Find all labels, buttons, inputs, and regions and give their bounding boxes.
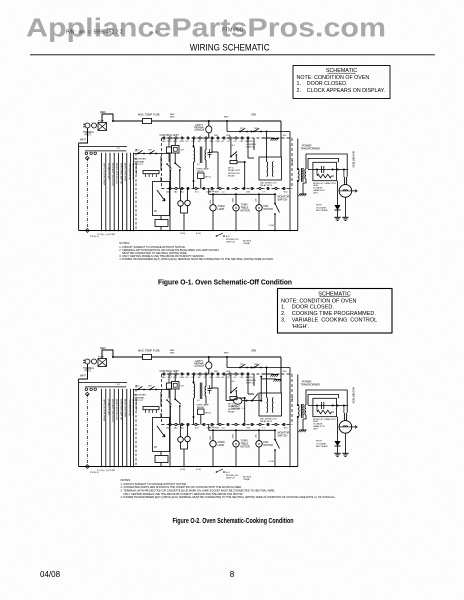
svg-text:M: M	[258, 442, 260, 446]
magnetron filament chokes	[343, 413, 346, 421]
fan thermal cutout switches	[133, 153, 170, 155]
wire bundle to control unit	[100, 389, 102, 467]
svg-text:B1: B1	[228, 141, 230, 143]
svg-text:BLU/BLK: BLU/BLK	[243, 477, 252, 479]
door sensing switch	[230, 139, 232, 156]
chassis boundary dashed	[135, 385, 137, 467]
svg-text:RED/1.25 FM-PWR: RED/1.25 FM-PWR	[124, 163, 126, 181]
svg-text:OHM: OHM	[214, 428, 219, 430]
svg-text:A.C.: A.C.	[226, 235, 231, 238]
svg-text:UNIT: UNIT	[313, 428, 318, 430]
svg-text:YLW: YLW	[209, 200, 211, 204]
svg-text:PPL/CAVITY DN CTOUT: PPL/CAVITY DN CTOUT	[111, 399, 114, 422]
svg-text:ROOM FAN: ROOM FAN	[134, 394, 146, 397]
rectifier ground	[334, 216, 340, 218]
wire top bus right drop	[280, 121, 282, 157]
magnetron	[339, 185, 352, 198]
svg-text:2ND.: 2ND.	[254, 128, 259, 130]
control unit bottom pins	[169, 187, 171, 189]
monitor switch	[274, 429, 276, 431]
svg-text:CUTOUT: CUTOUT	[134, 164, 144, 166]
svg-text:TRANSFORMER: TRANSFORMER	[301, 383, 321, 386]
svg-text:1. DOOR CLOSED.: 1. DOOR CLOSED.	[297, 81, 348, 87]
control unit boundary	[162, 137, 293, 139]
svg-text:M: M	[235, 206, 237, 210]
control unit right boundary	[291, 138, 293, 189]
oven thermal cutout	[225, 374, 227, 401]
svg-text:FUSE: FUSE	[98, 121, 104, 123]
wire to chassis	[262, 373, 272, 375]
svg-text:RED: RED	[170, 352, 175, 354]
control unit right boundary	[291, 374, 293, 425]
wire secondary to magnetron loop	[306, 154, 347, 177]
secondary interlock switch	[253, 367, 255, 369]
svg-text:PROT.: PROT.	[85, 134, 92, 136]
svg-text:MOTOR: MOTOR	[241, 446, 250, 449]
AC interlock switch	[216, 471, 218, 473]
left bus wire	[78, 143, 80, 231]
oven lamp relay	[198, 409, 205, 415]
neutral bottom bus wire	[79, 466, 298, 468]
hv capacitor	[321, 166, 323, 173]
magnetron filament chokes	[343, 177, 346, 185]
svg-text:ORN: ORN	[226, 371, 231, 373]
svg-text:FUSE: FUSE	[98, 357, 104, 359]
svg-text:2ND.: 2ND.	[254, 364, 259, 366]
svg-text:RELAY: RELAY	[228, 411, 235, 414]
svg-text:NOTE: CONDITION OF OVEN: NOTE: CONDITION OF OVEN	[281, 298, 357, 304]
svg-text:GRY/1.25 OD PLT-PWR: GRY/1.25 OD PLT-PWR	[102, 163, 104, 186]
control unit top pins	[163, 373, 165, 375]
note box 2	[278, 289, 393, 334]
hv capacitor box	[313, 398, 337, 416]
top supply bus wire	[113, 356, 143, 358]
svg-text:CUTOUT: CUTOUT	[195, 366, 205, 368]
svg-text:PROT.: PROT.	[85, 370, 92, 372]
relay RY1 contact switch	[174, 398, 176, 400]
control unit boundary	[162, 373, 293, 375]
svg-text:RED: RED	[224, 117, 229, 119]
svg-text:MOTOR: MOTOR	[264, 208, 273, 211]
svg-text:SENSING: SENSING	[246, 380, 256, 382]
key switch	[166, 163, 168, 165]
svg-text:CN5(A): CN5(A)	[243, 478, 250, 481]
svg-text:FTMV/5D: FTMV/5D	[222, 28, 244, 34]
svg-text:THERMAL: THERMAL	[83, 367, 95, 370]
control unit top pins	[163, 137, 165, 139]
AC interlock switch	[216, 235, 218, 237]
svg-text:3. VARIABLE COOKING CONTR: 3. VARIABLE COOKING CONTROL	[281, 318, 377, 324]
wire plug to top bus	[102, 114, 113, 123]
svg-text:RELAY: RELAY	[197, 406, 205, 409]
buzzer element	[167, 383, 172, 389]
svg-text:B O: B O	[195, 192, 199, 194]
flat cable connector	[143, 407, 159, 410]
relay RY1	[172, 382, 180, 390]
note box 1	[293, 66, 390, 99]
bottom pin labels	[251, 187, 253, 189]
svg-text:ORN: ORN	[251, 351, 256, 353]
svg-text:WHT: WHT	[80, 138, 86, 142]
power cord plug	[85, 359, 90, 364]
internal wiring verticals	[211, 138, 213, 152]
svg-text:2. CLOCK APPEARS ON DISPLAY: 2. CLOCK APPEARS ON DISPLAY.	[297, 88, 385, 94]
internal wiring verticals	[211, 374, 213, 388]
svg-text:HIGH: HIGH	[316, 205, 322, 207]
svg-text:RELAY (RY2): RELAY (RY2)	[260, 184, 272, 187]
transformer chassis ground	[302, 419, 304, 430]
wire top bus right drop	[280, 357, 282, 393]
terminal strip connector	[79, 382, 127, 384]
svg-text:RY: RY	[154, 446, 158, 449]
svg-text:RED: RED	[100, 346, 106, 350]
interlock resistor	[230, 397, 237, 400]
svg-text:CN5(A): CN5(A)	[243, 242, 250, 245]
svg-text:RELAY UNIT: RELAY UNIT	[228, 169, 241, 172]
svg-text:Figure O-2. Oven Schematic-Coo: Figure O-2. Oven Schematic-Cooking Condi…	[173, 516, 294, 525]
svg-text:RED: RED	[170, 116, 175, 118]
svg-text:P/N (LLV): P/N (LLV)	[90, 236, 99, 238]
svg-text:N.O: N.O	[186, 377, 190, 379]
svg-text:MOTOR: MOTOR	[264, 444, 273, 447]
svg-text:CUTOUT: CUTOUT	[134, 400, 144, 402]
svg-text:RED: RED	[224, 353, 229, 355]
svg-text:NOTES:: NOTES:	[121, 478, 132, 482]
svg-text:OHM: OHM	[214, 192, 219, 194]
rectifier ground	[334, 452, 340, 454]
indicator lamp 1	[178, 201, 184, 207]
svg-text:NEU: NEU	[162, 141, 167, 143]
low voltage transformer	[194, 148, 195, 163]
svg-text:MOTOR: MOTOR	[241, 210, 250, 213]
wire plug down	[79, 128, 88, 143]
svg-text:LT.GRN/1.25 SKT: LT.GRN/1.25 SKT	[107, 399, 109, 416]
svg-text:RED/1.25 FM-PWR: RED/1.25 FM-PWR	[124, 399, 126, 417]
lamp return wires	[181, 441, 188, 466]
svg-text:NOTE: CONDITION OF OVEN: NOTE: CONDITION OF OVEN	[297, 75, 370, 81]
primary interlock switch	[239, 131, 241, 133]
svg-text:(RY1): (RY1)	[228, 168, 234, 170]
magnetron temperature fuse	[143, 354, 152, 359]
top supply bus wire	[113, 120, 143, 122]
indicator lamp 2	[185, 200, 191, 206]
svg-text:T2: T2	[204, 141, 206, 143]
svg-text:WHT: WHT	[80, 374, 86, 378]
power cord plug	[85, 123, 90, 128]
relay terminal block	[155, 220, 168, 227]
svg-text:P/N: om c 5995 451 2 2: P/N: om c 5995 451 2 2	[66, 30, 123, 36]
svg-text:GRN: GRN	[180, 141, 185, 143]
svg-text:RELAY: RELAY	[228, 175, 235, 178]
relay terminal block	[155, 456, 168, 463]
svg-text:1. DOOR CLOSED.: 1. DOOR CLOSED.	[281, 305, 334, 311]
svg-text:SWITCH: SWITCH	[278, 435, 288, 438]
svg-text:A1: A1	[222, 140, 224, 143]
appliance fuse	[98, 359, 107, 367]
svg-text:LAMP: LAMP	[218, 208, 225, 211]
svg-text:RECTIFIER: RECTIFIER	[316, 210, 328, 212]
hv rectifier diode	[337, 181, 339, 205]
svg-text:BLU/BLK: BLU/BLK	[243, 241, 252, 243]
secondary interlock relay	[259, 393, 282, 416]
capacitor element	[208, 152, 212, 154]
power relay box	[153, 418, 170, 452]
flat cable connector	[143, 171, 159, 174]
svg-text:CN2: CN2	[240, 141, 244, 143]
svg-text:RED: RED	[100, 110, 106, 114]
monitor switch	[274, 193, 276, 195]
COM bus wire	[209, 193, 275, 195]
magnetron temperature fuse	[143, 118, 152, 123]
svg-text:DOOR: DOOR	[246, 377, 253, 379]
svg-text:(RY2): (RY2)	[205, 177, 211, 179]
svg-text:'HIGH'.: 'HIGH'.	[281, 324, 310, 330]
bottom pin labels	[251, 423, 253, 425]
svg-text:RELAY: RELAY	[197, 170, 205, 173]
cavity thermal cutout	[208, 357, 210, 362]
header rule	[30, 54, 435, 56]
red vertical wire	[289, 368, 291, 467]
svg-text:(B): (B)	[174, 428, 177, 430]
svg-text:AppliancePartsPros.com: AppliancePartsPros.com	[26, 14, 386, 42]
transformer secondary	[305, 405, 306, 415]
primary interlock switch	[239, 367, 241, 369]
svg-text:SWITCH: SWITCH	[226, 478, 235, 480]
wire to chassis	[262, 137, 272, 139]
svg-text:THERMAL: THERMAL	[134, 160, 145, 163]
magnetron	[339, 421, 352, 434]
transformer chassis ground	[302, 183, 304, 194]
svg-text:SWITCH: SWITCH	[226, 242, 235, 244]
svg-text:YLW/SENSOR (A): YLW/SENSOR (A)	[128, 163, 131, 180]
hv capacitor box	[313, 162, 337, 180]
svg-text:MAGNETRON: MAGNETRON	[352, 151, 355, 167]
bleeder resistor	[317, 410, 331, 414]
svg-text:M: M	[258, 206, 260, 210]
wire secondary to magnetron loop	[306, 390, 347, 413]
svg-text:INTERLOCK: INTERLOCK	[228, 173, 241, 175]
svg-text:(N): (N)	[166, 428, 169, 430]
svg-text:BRN/TT-MOTOR (LLV): BRN/TT-MOTOR (LLV)	[115, 399, 117, 420]
fan motor	[256, 205, 262, 211]
svg-text:(CN1): (CN1)	[180, 233, 186, 235]
svg-text:GRY/1.25 OD PLT-PWR: GRY/1.25 OD PLT-PWR	[102, 399, 104, 422]
svg-text:WHT/OVEN LAMP SW: WHT/OVEN LAMP SW	[119, 163, 122, 184]
svg-text:A1: A1	[222, 376, 224, 379]
svg-text:(B): (B)	[174, 192, 177, 194]
svg-text:CN2: CN2	[240, 377, 244, 379]
transformer secondary	[305, 169, 306, 179]
middle column wires	[160, 156, 162, 171]
neutral bottom bus wire	[79, 230, 298, 232]
turntable motor	[233, 441, 239, 447]
power relay box	[153, 182, 170, 216]
low voltage transformer	[194, 384, 195, 399]
svg-text:M: M	[235, 442, 237, 446]
filament wire	[308, 394, 338, 398]
svg-text:PPL/CAVITY DN CTOUT: PPL/CAVITY DN CTOUT	[111, 163, 114, 186]
capacitor element	[208, 388, 212, 390]
svg-text:THERMAL: THERMAL	[83, 131, 95, 134]
svg-text:(LLV): (LLV)	[196, 469, 201, 471]
turntable motor	[233, 205, 239, 211]
harness chain wire	[86, 394, 88, 465]
svg-text:2. COOKING TIME PROGRAMMED.: 2. COOKING TIME PROGRAMMED.	[281, 311, 376, 317]
wire plug down	[79, 364, 88, 379]
hv bus through box	[308, 169, 348, 171]
magnetron ground	[344, 197, 346, 217]
left bus wire	[78, 379, 80, 467]
svg-text:DOOR: DOOR	[246, 141, 253, 143]
middle column wires	[160, 392, 162, 407]
hv capacitor	[321, 402, 323, 409]
svg-text:HIGH: HIGH	[316, 441, 322, 443]
indicator lamp 2	[185, 436, 191, 442]
svg-text:TO (N) + (L) PORT: TO (N) + (L) PORT	[97, 470, 116, 472]
control unit bottom pins	[169, 423, 171, 425]
svg-text:TO (N) + (L) PORT: TO (N) + (L) PORT	[97, 234, 116, 236]
svg-text:THERMAL: THERMAL	[134, 396, 145, 399]
svg-text:Figure O-1. Oven Schematic-Off: Figure O-1. Oven Schematic-Off Condition	[158, 277, 292, 286]
svg-text:UNIT: UNIT	[313, 192, 318, 194]
svg-text:ORN: ORN	[216, 141, 221, 143]
oven lamp relay	[198, 173, 205, 179]
oven lamp	[210, 441, 216, 447]
svg-text:RLY: RLY	[181, 386, 185, 388]
svg-text:(LLV): (LLV)	[196, 233, 201, 235]
svg-text:ORN: ORN	[226, 135, 231, 137]
bleeder resistor	[317, 174, 331, 178]
svg-text:TRANSFORMER: TRANSFORMER	[301, 147, 321, 150]
svg-text:A.C.: A.C.	[226, 471, 231, 474]
svg-text:NOTES:: NOTES:	[119, 241, 130, 245]
svg-text:GRN: GRN	[180, 377, 185, 379]
svg-text:YLW: YLW	[209, 436, 211, 440]
svg-text:BLU: BLU	[284, 427, 288, 429]
chassis boundary dashed	[135, 149, 137, 231]
buzzer element	[167, 147, 172, 153]
svg-text:CUTOUT: CUTOUT	[195, 130, 205, 132]
svg-text:RECTIFIER: RECTIFIER	[316, 446, 328, 448]
svg-text:RLY: RLY	[181, 150, 185, 152]
door sensing switch	[230, 375, 232, 392]
ORN switch bus	[226, 356, 228, 358]
svg-text:RY: RY	[154, 210, 158, 213]
wire bundle to control unit	[100, 153, 102, 231]
svg-text:WIRING SCHEMATIC: WIRING SCHEMATIC	[190, 43, 270, 53]
svg-text:YLW/SENSOR (A): YLW/SENSOR (A)	[128, 399, 131, 416]
svg-text:BRN/TT-MOTOR (LLV): BRN/TT-MOTOR (LLV)	[115, 163, 117, 184]
svg-text:INTERLOCK: INTERLOCK	[226, 239, 239, 241]
svg-text:MAG. TEMP. FUSE: MAG. TEMP. FUSE	[138, 113, 160, 116]
fan motor	[256, 441, 262, 447]
lamp return wires	[181, 205, 188, 230]
svg-text:VOLTAGE: VOLTAGE	[316, 442, 327, 445]
svg-text:COM: COM	[269, 461, 274, 463]
cavity thermal cutout	[208, 121, 210, 126]
svg-text:04/08: 04/08	[40, 570, 61, 579]
svg-text:P/N (LLV): P/N (LLV)	[90, 472, 99, 474]
svg-text:BLU: BLU	[284, 191, 288, 193]
indicator lamp 1	[178, 437, 184, 443]
svg-text:RELAY (RY2): RELAY (RY2)	[260, 420, 272, 423]
svg-text:ROOM FAN: ROOM FAN	[134, 158, 146, 161]
svg-text:8: 8	[230, 570, 235, 579]
svg-text:(N): (N)	[166, 192, 169, 194]
oven lamp	[210, 205, 216, 211]
svg-text:4. POWER TRANSFORMER (E)(T) (W: 4. POWER TRANSFORMER (E)(T) (W531) (E/G)…	[119, 257, 273, 261]
svg-text:4. POWER TRANSFORMER (E)(T) (W: 4. POWER TRANSFORMER (E)(T) (W531) (E/G)…	[121, 495, 336, 499]
svg-text:ORN: ORN	[216, 377, 221, 379]
hv bus through box	[308, 405, 348, 407]
svg-text:MAGNETRON: MAGNETRON	[352, 387, 355, 403]
red vertical wire	[289, 132, 291, 231]
hv rectifier diode	[337, 417, 339, 441]
cook switch	[252, 394, 258, 401]
svg-text:(CN1): (CN1)	[180, 469, 186, 471]
svg-text:(RY2): (RY2)	[205, 413, 211, 415]
svg-text:COM: COM	[269, 225, 274, 227]
COM bus wire	[209, 429, 275, 431]
harness chain wire	[86, 158, 88, 229]
svg-text:SWITCH: SWITCH	[278, 199, 288, 202]
key switch	[166, 399, 168, 401]
svg-text:MAG. TEMP. FUSE: MAG. TEMP. FUSE	[138, 349, 160, 352]
appliance fuse	[98, 123, 107, 131]
svg-text:INTERLOCK: INTERLOCK	[226, 475, 239, 477]
secondary interlock relay	[259, 157, 282, 180]
wire to chassis 2	[261, 378, 276, 380]
svg-text:T2: T2	[204, 377, 206, 379]
filament wire	[308, 158, 338, 162]
svg-text:ORN: ORN	[251, 115, 256, 117]
svg-text:N.O: N.O	[186, 141, 190, 143]
terminal strip connector	[79, 146, 127, 148]
relay RY1 contact switch	[174, 162, 176, 164]
svg-text:B1: B1	[228, 377, 230, 379]
svg-text:NEU: NEU	[162, 377, 167, 379]
svg-text:WHT/OVEN LAMP SW: WHT/OVEN LAMP SW	[119, 399, 122, 420]
svg-text:1ST.: 1ST.	[240, 364, 244, 366]
svg-text:SENSING: SENSING	[246, 144, 256, 146]
wire plug to top bus	[102, 350, 113, 359]
svg-text:THERMAL C.O.: THERMAL C.O.	[231, 407, 246, 410]
fan thermal cutout switches	[133, 389, 170, 391]
ORN switch bus	[226, 120, 228, 122]
secondary interlock switch	[253, 131, 255, 133]
svg-text:o 8: o 8	[150, 30, 158, 35]
svg-text:VOLTAGE: VOLTAGE	[316, 206, 327, 209]
interlock resistor	[230, 161, 237, 164]
magnetron ground	[344, 433, 346, 453]
svg-text:LT.GRN/1.25 SKT: LT.GRN/1.25 SKT	[107, 163, 109, 180]
svg-text:LAMP: LAMP	[218, 444, 225, 447]
svg-text:1ST.: 1ST.	[240, 128, 244, 130]
relay RY1	[172, 146, 180, 154]
svg-text:B O: B O	[195, 428, 199, 430]
